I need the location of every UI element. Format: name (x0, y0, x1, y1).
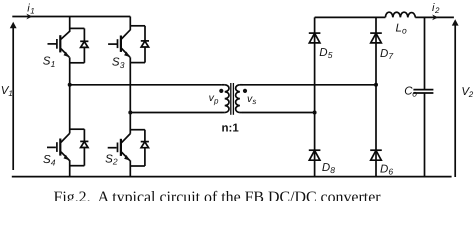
label Lo (396, 22, 408, 35)
caption (54, 189, 381, 207)
transformer core (231, 83, 234, 115)
svg-text:L: L (396, 22, 402, 34)
label Co (404, 86, 417, 99)
diode (anti-parallel of S4) (70, 129, 89, 166)
voltage arrow V1 (10, 22, 17, 170)
label V2 (461, 86, 473, 99)
label S3 (112, 56, 125, 69)
svg-text:S: S (43, 154, 51, 166)
wire S4 emitter to bottom rail (69, 160, 71, 177)
svg-text:s: s (252, 97, 256, 106)
transformer T1 primary winding (222, 85, 229, 113)
wire top-left rail (12, 16, 130, 18)
label D8 (322, 162, 335, 175)
transistor S2 (IGBT) (108, 134, 131, 161)
node right leg midpoint (128, 111, 132, 115)
svg-text:8: 8 (330, 165, 335, 175)
transistor S3 (IGBT) (108, 30, 130, 57)
voltage arrow V2 (452, 19, 459, 177)
wire capacitor column bottom (424, 93, 426, 176)
label vs (247, 93, 256, 106)
transformer polarity dot secondary (243, 89, 247, 93)
svg-text:p: p (213, 97, 219, 106)
node secondary top / D7 leg (374, 83, 378, 87)
label D7 (380, 48, 393, 61)
wire right leg (S3 emitter to S2 collector) (129, 57, 131, 133)
wire bottom rail (12, 176, 452, 178)
inductor Lo (385, 12, 415, 17)
transistor S4 (IGBT) (47, 133, 70, 160)
wire D5-D8 leg (314, 17, 316, 176)
svg-text:4: 4 (51, 157, 56, 167)
svg-text:6: 6 (388, 166, 393, 176)
wire D7-D6 leg (375, 17, 377, 176)
label S2 (105, 153, 118, 166)
diode (anti-parallel of S3) (130, 26, 149, 63)
svg-text:2: 2 (434, 6, 440, 15)
wire secondary top to rectifier (242, 84, 376, 86)
svg-text:S: S (43, 55, 51, 67)
wire S3 collector riser (129, 17, 131, 31)
svg-text:o: o (402, 25, 407, 35)
svg-text:S: S (105, 153, 113, 165)
svg-text:S: S (112, 56, 120, 68)
wire secondary bottom to rectifier (242, 112, 314, 114)
svg-text:2: 2 (468, 90, 474, 99)
svg-text:1: 1 (30, 6, 34, 15)
node left leg midpoint (68, 83, 72, 87)
wire left leg (S1 emitter to S4 collector) (69, 57, 71, 133)
wire bus primary bottom (130, 112, 222, 114)
diode D7 (370, 33, 382, 43)
wire rectifier top rail (315, 16, 386, 18)
node secondary bottom / D5 leg (313, 111, 317, 115)
svg-text:1: 1 (51, 59, 56, 69)
diode (anti-parallel of S1) (70, 28, 89, 62)
svg-text:2: 2 (112, 157, 118, 167)
svg-text:1: 1 (8, 89, 12, 98)
svg-text:D: D (380, 48, 388, 60)
label V1 (1, 85, 13, 98)
wire S2 emitter to bottom rail (129, 160, 131, 176)
transformer T1 secondary winding (236, 85, 243, 113)
diode D5 (309, 33, 321, 43)
capacitor Co (413, 90, 433, 93)
wire bus primary top (70, 84, 222, 86)
label S1 (43, 55, 56, 68)
diode (anti-parallel of S2) (130, 130, 149, 166)
diode D8 (309, 150, 321, 160)
svg-text:D: D (322, 162, 330, 174)
label vp (209, 92, 219, 105)
svg-text:n:1: n:1 (222, 123, 240, 135)
transistor S1 (IGBT) (48, 31, 70, 57)
svg-text:5: 5 (328, 50, 333, 60)
label D5 (319, 47, 332, 60)
current arrow i1 (26, 14, 32, 20)
wire capacitor column top (424, 17, 426, 89)
label D6 (380, 163, 393, 176)
svg-text:D: D (380, 163, 388, 175)
label i1 (27, 2, 34, 15)
transformer polarity dot primary (219, 89, 223, 93)
svg-text:7: 7 (388, 51, 393, 61)
wire rectifier output top (415, 16, 454, 18)
diode D6 (370, 150, 382, 160)
current arrow i2 (432, 15, 438, 21)
svg-text:o: o (412, 89, 417, 99)
svg-text:D: D (319, 47, 327, 59)
label n:1 (222, 123, 240, 135)
label S4 (43, 154, 56, 167)
wire S1 collector riser (69, 17, 71, 32)
label i2 (432, 2, 440, 15)
svg-text:3: 3 (120, 60, 125, 70)
